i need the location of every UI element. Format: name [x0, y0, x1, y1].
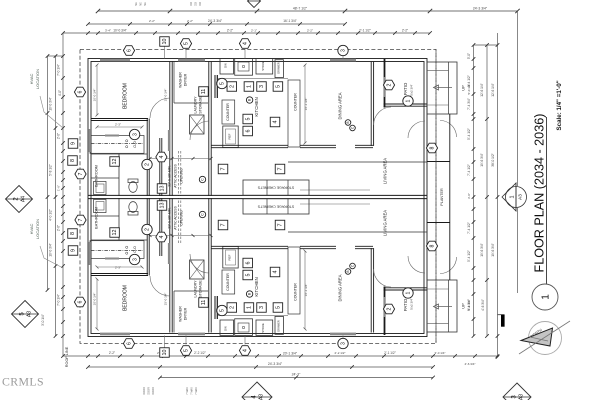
svg-text:12'-6 1/4": 12'-6 1/4" — [480, 83, 484, 96]
svg-text:Scale: 1/4" =1'-0": Scale: 1/4" =1'-0" — [556, 80, 563, 130]
svg-text:3'-4": 3'-4" — [105, 29, 111, 33]
wall bedroom bottom — [91, 118, 148, 120]
svg-text:7: 7 — [221, 224, 227, 227]
svg-text:NE: NE — [144, 2, 147, 6]
svg-text:4: 4 — [243, 42, 249, 45]
svg-text:1: 1 — [406, 99, 412, 102]
svg-text:3: 3 — [341, 49, 347, 52]
svg-text:BEDROOM: BEDROOM — [123, 285, 129, 311]
svg-text:COUNTER: COUNTER — [294, 283, 298, 301]
circle marker 1 patio bottom — [403, 288, 413, 298]
svg-text:10'-0 3/4": 10'-0 3/4" — [93, 293, 97, 306]
roof dashed vertical through planter — [435, 49, 437, 343]
sq marker 7a top — [218, 164, 228, 174]
dining/living wall — [300, 144, 336, 146]
sq marker 8 left top — [68, 156, 78, 166]
svg-text:24'-3 3/4": 24'-3 3/4" — [208, 19, 223, 23]
storage cabinets top — [243, 180, 309, 195]
svg-text:5: 5 — [184, 349, 190, 352]
party wall — [88, 194, 427, 196]
svg-text:22" X 30" MIN.: 22" X 30" MIN. — [168, 207, 172, 229]
sq marker 5 kitchen bottom — [273, 303, 283, 313]
hall dashed lines — [178, 151, 180, 196]
svg-text:BATHROOM: BATHROOM — [95, 165, 99, 187]
svg-text:WASHER: WASHER — [179, 306, 183, 322]
svg-text:5'x2 3/4": 5'x2 3/4" — [410, 84, 414, 95]
svg-text:STOVE: STOVE — [261, 323, 265, 333]
svg-text:NE: NE — [135, 2, 138, 6]
svg-text:4: 4 — [243, 349, 249, 352]
svg-text:OPENING: OPENING — [180, 168, 184, 184]
svg-text:PATIO: PATIO — [403, 82, 408, 95]
svg-text:1: 1 — [247, 306, 253, 309]
svg-text:16'-1 3/4": 16'-1 3/4" — [304, 98, 308, 111]
svg-text:2'-2": 2'-2" — [307, 29, 313, 33]
svg-text:BEDROOM: BEDROOM — [123, 83, 129, 109]
circle marker C dining top — [350, 125, 356, 131]
svg-text:15'-0 3/4": 15'-0 3/4" — [164, 89, 168, 102]
svg-text:2: 2 — [229, 306, 235, 309]
svg-text:STORAGE: STORAGE — [199, 96, 203, 114]
hex marker 4 hall top — [156, 152, 167, 162]
svg-text:2'-2": 2'-2" — [187, 19, 193, 23]
sq marker 5b kitchen top — [243, 114, 253, 124]
svg-text:6: 6 — [78, 90, 84, 93]
svg-text:7: 7 — [278, 168, 284, 171]
svg-text:7 MAX: 7 MAX — [195, 387, 198, 395]
svg-text:2: 2 — [387, 83, 393, 86]
section marker 5/A3 left — [12, 301, 39, 328]
svg-text:7'-0 1/4": 7'-0 1/4" — [57, 294, 61, 306]
circle marker B kitchen top — [246, 97, 252, 103]
svg-text:38'-0 1/2": 38'-0 1/2" — [491, 153, 495, 166]
svg-text:DRAWER: DRAWER — [277, 320, 281, 332]
svg-text:ATTIC ACCESS: ATTIC ACCESS — [174, 163, 178, 187]
svg-text:24'-3": 24'-3" — [292, 373, 301, 377]
hex marker 4 bottom — [239, 346, 250, 356]
svg-text:7: 7 — [78, 172, 84, 175]
svg-text:KITCHEN: KITCHEN — [254, 277, 259, 296]
svg-text:WASHER: WASHER — [179, 72, 183, 88]
svg-text:CLO: CLO — [133, 246, 137, 253]
svg-text:16'-1 3/4": 16'-1 3/4" — [304, 284, 308, 297]
svg-text:1'-6": 1'-6" — [57, 185, 61, 191]
svg-text:B: B — [346, 270, 350, 272]
hex marker 7 left bottom — [75, 215, 86, 225]
black bar — [501, 315, 505, 327]
sq marker 4 kitchen top — [270, 117, 280, 127]
section marker 1/A3 right — [502, 183, 527, 211]
svg-text:9: 9 — [71, 249, 77, 252]
sq marker 5 kitchen top — [273, 82, 283, 92]
sq marker 8 left bottom — [68, 229, 78, 239]
svg-text:3: 3 — [259, 85, 265, 88]
hex marker 6 left wall top — [74, 87, 85, 97]
svg-text:4'-6 3/4": 4'-6 3/4" — [481, 299, 485, 311]
svg-text:3: 3 — [259, 306, 265, 309]
svg-text:STORAGE CABINETS: STORAGE CABINETS — [257, 186, 294, 190]
wall bedroom right — [169, 62, 171, 119]
sq marker 6 kitchen top — [243, 126, 253, 136]
svg-text:5: 5 — [276, 306, 282, 309]
title circle 1 — [532, 284, 558, 310]
svg-text:STORAGE CABINETS: STORAGE CABINETS — [257, 205, 294, 209]
svg-text:4'-6 3/4": 4'-6 3/4" — [465, 362, 476, 366]
left dim column lines — [47, 56, 49, 290]
svg-text:7'-4 1/2": 7'-4 1/2" — [467, 164, 471, 176]
svg-text:REF: REF — [228, 254, 232, 260]
svg-text:12: 12 — [112, 230, 118, 236]
svg-text:DW: DW — [224, 326, 228, 331]
svg-text:2'-1 1/2": 2'-1 1/2" — [384, 351, 396, 355]
svg-text:2'-2 1/2": 2'-2 1/2" — [194, 351, 206, 355]
svg-text:4: 4 — [159, 155, 165, 158]
svg-text:10: 10 — [162, 39, 168, 45]
svg-text:19'-6 3/4": 19'-6 3/4" — [491, 243, 495, 256]
svg-text:PLANTER: PLANTER — [440, 188, 444, 206]
sq marker 3 kitchen bottom — [257, 303, 267, 313]
hex marker 5 top — [180, 39, 191, 49]
svg-text:7: 7 — [278, 224, 284, 227]
svg-text:DRAWER: DRAWER — [277, 62, 281, 74]
hex marker 8 planter bottom — [426, 241, 437, 251]
sq marker 13 hall top — [157, 184, 167, 194]
svg-text:DO: DO — [190, 2, 193, 6]
svg-text:5'-0 3/4": 5'-0 3/4" — [467, 84, 471, 95]
svg-text:10'-0 3/4": 10'-0 3/4" — [49, 97, 53, 110]
svg-text:7 MAX: 7 MAX — [186, 387, 189, 395]
planter — [427, 161, 450, 163]
svg-text:1: 1 — [541, 294, 552, 300]
svg-text:DRYER: DRYER — [184, 307, 188, 320]
title underline — [546, 117, 548, 284]
svg-text:DRYER: DRYER — [184, 73, 188, 86]
svg-text:6: 6 — [78, 300, 84, 303]
svg-text:BATHROOM: BATHROOM — [95, 207, 99, 229]
circle marker B dining bottom — [345, 269, 351, 275]
svg-text:KITCHEN: KITCHEN — [254, 97, 259, 116]
hex marker 4 top — [239, 39, 250, 49]
svg-text:10'-0 3/4": 10'-0 3/4" — [113, 29, 126, 33]
svg-text:COUNTER: COUNTER — [226, 103, 230, 121]
storage cabinets bottom — [243, 199, 309, 214]
svg-text:24'-3 3/4": 24'-3 3/4" — [473, 7, 488, 11]
door arc walkway — [440, 121, 457, 138]
svg-text:2'-3": 2'-3" — [115, 123, 121, 127]
svg-text:13: 13 — [160, 186, 166, 192]
dimension frame top row 3 — [63, 32, 430, 34]
svg-text:DO: DO — [195, 2, 198, 6]
sq marker 10 top — [160, 37, 170, 47]
sq marker 4 kitchen bottom — [270, 267, 280, 277]
svg-text:LIVING AREA: LIVING AREA — [383, 158, 388, 184]
sq marker 1 kitchen top — [244, 82, 254, 92]
sq marker 3 kitchen top — [257, 82, 267, 92]
svg-text:8: 8 — [430, 146, 436, 149]
svg-text:7'-0 1/4": 7'-0 1/4" — [57, 64, 61, 76]
section marker 3/A3 bottom right (cut) — [503, 383, 531, 400]
svg-text:FLOOR PLAN (2034 - 2036): FLOOR PLAN (2034 - 2036) — [533, 114, 547, 273]
svg-text:1: 1 — [406, 291, 412, 294]
svg-text:6: 6 — [245, 262, 251, 265]
sq marker 12 bath top — [110, 157, 120, 167]
svg-text:ROOF LINE: ROOF LINE — [65, 346, 69, 367]
circle marker C bottom — [199, 211, 205, 217]
svg-text:2'-3": 2'-3" — [115, 266, 121, 270]
sq marker 2 kitchen top — [227, 82, 237, 92]
sq marker 9 left top — [68, 139, 78, 149]
hex marker 5 bottom — [180, 346, 191, 356]
svg-text:5: 5 — [220, 309, 226, 312]
svg-text:4: 4 — [273, 271, 279, 274]
svg-text:12'-6 1/4": 12'-6 1/4" — [491, 83, 495, 96]
svg-text:10'-0 3/4": 10'-0 3/4" — [49, 243, 53, 256]
sq marker 5b kitchen bottom — [243, 270, 253, 280]
circle marker 3 top — [338, 45, 348, 55]
laundry shelf lines — [174, 102, 208, 104]
svg-text:3: 3 — [132, 133, 138, 136]
svg-text:UP: UP — [461, 85, 466, 91]
door arc bedroom — [150, 98, 170, 118]
svg-text:DO: DO — [199, 2, 202, 6]
svg-text:22" X 30" MIN.: 22" X 30" MIN. — [168, 165, 172, 187]
svg-text:2'-2": 2'-2" — [149, 19, 155, 23]
kitchen wall gray — [217, 75, 219, 98]
sq marker 6 kitchen bottom — [243, 258, 253, 268]
svg-text:DOOR: DOOR — [148, 387, 151, 395]
svg-text:5'-8 1/2": 5'-8 1/2" — [49, 164, 53, 176]
circle marker B dining top — [345, 120, 351, 126]
circle marker 5 kitchen bottom — [217, 305, 227, 315]
svg-text:3: 3 — [341, 342, 347, 345]
dining/patio wall — [370, 62, 372, 147]
circle marker 3 bottom — [338, 338, 348, 348]
hex marker 8 planter top — [426, 143, 437, 153]
svg-text:5: 5 — [245, 118, 251, 121]
svg-text:DW: DW — [224, 63, 228, 68]
interior dim living — [300, 189, 370, 191]
svg-text:7 MAX: 7 MAX — [191, 387, 194, 395]
sq marker 11 laundry top — [199, 87, 209, 97]
dimension frame top row 2 — [88, 23, 345, 25]
window fills — [100, 59, 130, 62]
svg-text:PATIO: PATIO — [403, 298, 408, 311]
door arc hall — [190, 121, 209, 140]
svg-text:5: 5 — [276, 85, 282, 88]
kitchen counter line under appliances — [218, 78, 289, 80]
svg-text:10'-0 3/4": 10'-0 3/4" — [93, 89, 97, 102]
svg-text:13: 13 — [160, 203, 166, 209]
svg-text:19'-6 3/4": 19'-6 3/4" — [480, 243, 484, 256]
svg-text:6: 6 — [127, 342, 133, 345]
svg-text:4: 4 — [273, 121, 279, 124]
svg-text:DINING AREA: DINING AREA — [338, 92, 343, 119]
roof line dashed rectangle — [80, 49, 436, 343]
svg-text:8: 8 — [430, 244, 436, 247]
dimension frame top row 1 — [98, 10, 518, 12]
svg-text:UP: UP — [461, 303, 466, 309]
hex marker 6 left wall bottom — [74, 297, 85, 307]
mirrored unit geometry — [88, 198, 457, 348]
svg-text:2: 2 — [229, 85, 235, 88]
right outer vertical line — [517, 11, 519, 186]
hex marker 2 patio top — [383, 80, 394, 90]
patio walls — [384, 59, 386, 108]
circle marker 3 closet bottom — [129, 254, 139, 264]
svg-text:2'-2 1/2": 2'-2 1/2" — [335, 351, 346, 355]
svg-text:9: 9 — [71, 142, 77, 145]
fridge — [223, 126, 238, 148]
svg-text:A4: A4 — [21, 196, 27, 202]
circle marker B kitchen bottom — [246, 291, 252, 297]
svg-text:19'-6 3/4": 19'-6 3/4" — [480, 153, 484, 166]
sq marker 7b top — [275, 164, 285, 174]
svg-text:STOVE: STOVE — [261, 61, 265, 71]
svg-text:COUNTER: COUNTER — [226, 273, 230, 291]
hex marker 4 hall bottom — [156, 232, 167, 242]
circle marker 5 kitchen top — [217, 78, 227, 88]
circle marker C dining bottom — [350, 263, 356, 269]
washer box — [190, 115, 205, 134]
kitchen counter left — [222, 100, 235, 124]
svg-text:2'-1 1/2": 2'-1 1/2" — [359, 29, 371, 33]
sq marker 1 kitchen bottom — [244, 303, 254, 313]
closet — [90, 136, 144, 154]
svg-text:CRMLS: CRMLS — [2, 375, 44, 389]
kitchen counter right — [288, 80, 300, 147]
north arrow — [519, 321, 570, 355]
door arc dining-patio — [374, 107, 391, 125]
svg-text:HVAC: HVAC — [29, 223, 34, 234]
svg-text:3'-0": 3'-0" — [467, 193, 471, 199]
building exterior walls — [88, 59, 427, 337]
svg-text:10: 10 — [162, 350, 168, 356]
svg-text:5'x2 3/4": 5'x2 3/4" — [410, 298, 414, 309]
hex marker 6 roofline top — [123, 46, 134, 56]
svg-text:5'-4 1/2": 5'-4 1/2" — [467, 250, 471, 262]
svg-text:ATTIC ACCESS: ATTIC ACCESS — [174, 205, 178, 229]
svg-text:2'-1": 2'-1" — [251, 29, 257, 33]
svg-text:4'-0": 4'-0" — [58, 90, 62, 96]
svg-text:5: 5 — [184, 42, 190, 45]
svg-text:12: 12 — [112, 159, 118, 165]
svg-text:1: 1 — [509, 195, 515, 198]
svg-text:DOOR: DOOR — [143, 387, 146, 395]
svg-text:15'-0 3/4": 15'-0 3/4" — [164, 293, 168, 306]
interior dim dining — [304, 65, 306, 143]
svg-text:LAUNDRY: LAUNDRY — [194, 280, 198, 298]
svg-text:B: B — [346, 121, 350, 123]
interior dim lines bedroom — [96, 65, 98, 115]
circle marker 2 bath bottom — [142, 224, 152, 234]
svg-text:CLO: CLO — [133, 141, 137, 148]
svg-text:LOCATION: LOCATION — [35, 219, 40, 239]
svg-text:3'-0 1/4": 3'-0 1/4" — [435, 351, 446, 355]
circle marker C top — [199, 176, 205, 182]
circle marker 1 patio top — [403, 96, 413, 106]
svg-text:5: 5 — [220, 82, 226, 85]
circle marker 2 bath top — [142, 159, 152, 169]
svg-text:NE: NE — [140, 2, 143, 6]
svg-text:4'-0 1/2": 4'-0 1/2" — [49, 209, 53, 221]
svg-text:5: 5 — [245, 274, 251, 277]
sq marker 2 kitchen bottom — [227, 303, 237, 313]
svg-text:3'-0 1/4": 3'-0 1/4" — [41, 314, 45, 326]
svg-text:DOOR: DOOR — [152, 387, 155, 395]
svg-text:LAUNDRY: LAUNDRY — [194, 96, 198, 114]
svg-text:8: 8 — [70, 232, 76, 235]
toilet — [129, 182, 137, 193]
svg-text:A3: A3 — [259, 394, 265, 400]
svg-text:7'-4 1/2": 7'-4 1/2" — [467, 222, 471, 234]
svg-text:A3: A3 — [517, 194, 522, 200]
svg-text:2'-2": 2'-2" — [402, 29, 408, 33]
svg-text:7: 7 — [78, 218, 84, 221]
right dim column lines — [473, 45, 475, 336]
sq marker 11 laundry bottom — [199, 298, 209, 308]
svg-text:7: 7 — [221, 168, 227, 171]
svg-text:LOCATION: LOCATION — [35, 69, 40, 89]
kitchen appliance row — [220, 59, 234, 74]
svg-text:20'-1 3/4": 20'-1 3/4" — [283, 352, 298, 356]
sq marker 9 left bottom — [68, 246, 78, 256]
sq marker 7b bottom — [275, 220, 285, 230]
svg-text:5'-0": 5'-0" — [467, 53, 471, 59]
dimension frame bottom rows — [63, 355, 498, 357]
svg-text:REF: REF — [228, 133, 232, 139]
svg-text:16'-1 3/4": 16'-1 3/4" — [283, 19, 296, 23]
svg-text:A3: A3 — [27, 311, 33, 317]
svg-text:2: 2 — [387, 307, 393, 310]
svg-text:STORAGE: STORAGE — [199, 280, 203, 298]
svg-text:5'-0 3/4": 5'-0 3/4" — [467, 300, 471, 311]
hex marker 7 left top — [75, 169, 86, 179]
section marker 4/A3 bottom (cut) — [242, 382, 272, 400]
svg-text:11: 11 — [201, 300, 207, 306]
door arc living right — [408, 121, 425, 138]
hex marker 6 roofline bottom — [123, 339, 134, 349]
svg-text:OPENING: OPENING — [180, 210, 184, 226]
svg-text:2'-0": 2'-0" — [57, 225, 61, 231]
hex marker 2 patio bottom — [383, 304, 394, 314]
svg-text:48'-7 1/2": 48'-7 1/2" — [293, 7, 308, 11]
stairs outside right — [427, 62, 457, 114]
svg-text:4: 4 — [159, 235, 165, 238]
svg-text:COUNTER: COUNTER — [294, 93, 298, 111]
svg-text:3: 3 — [132, 258, 138, 261]
svg-text:6: 6 — [245, 130, 251, 133]
svg-text:HVAC: HVAC — [29, 73, 34, 84]
circle marker 3 closet top — [129, 129, 139, 139]
marker top edge (cut) — [248, 0, 261, 8]
wall laundry/kitchen — [208, 62, 210, 197]
stairs arrow — [437, 87, 452, 89]
svg-text:2'-2": 2'-2" — [109, 351, 115, 355]
svg-text:2: 2 — [145, 228, 151, 231]
hall/kitchen bottom wall — [211, 144, 288, 146]
mid band dim row — [150, 158, 211, 160]
svg-text:2: 2 — [145, 163, 151, 166]
svg-text:7'-4 3/4": 7'-4 3/4" — [467, 98, 471, 110]
svg-text:LIVING AREA: LIVING AREA — [383, 210, 388, 236]
svg-text:A3: A3 — [519, 394, 525, 400]
svg-text:5'-4 1/2": 5'-4 1/2" — [467, 128, 471, 140]
svg-text:6: 6 — [127, 49, 133, 52]
sq marker 13 hall bottom — [157, 201, 167, 211]
svg-text:2'-2": 2'-2" — [227, 29, 233, 33]
svg-text:1: 1 — [247, 85, 253, 88]
sq marker 12 bath bottom — [110, 228, 120, 238]
